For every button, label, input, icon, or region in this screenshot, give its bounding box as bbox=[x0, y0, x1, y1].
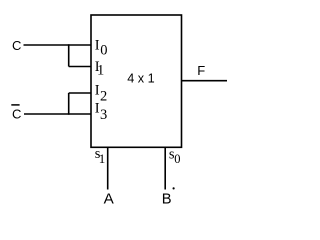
svg-text:2: 2 bbox=[100, 89, 107, 105]
svg-text:B: B bbox=[162, 192, 172, 208]
svg-text:0: 0 bbox=[100, 43, 107, 59]
svg-text:3: 3 bbox=[100, 107, 107, 123]
svg-text:F: F bbox=[197, 63, 205, 78]
svg-text:0: 0 bbox=[174, 152, 180, 166]
svg-text:I: I bbox=[95, 38, 100, 54]
svg-text:A: A bbox=[104, 190, 115, 207]
svg-text:C: C bbox=[12, 106, 21, 121]
svg-text:1: 1 bbox=[99, 151, 106, 166]
svg-text:C: C bbox=[12, 38, 21, 53]
svg-text:4 x 1: 4 x 1 bbox=[127, 72, 155, 86]
svg-text:1: 1 bbox=[97, 63, 104, 79]
